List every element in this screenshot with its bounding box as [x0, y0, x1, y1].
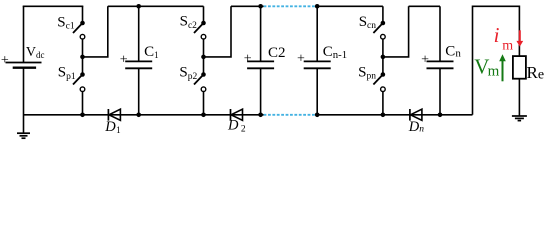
svg-text:Cn: Cn	[445, 44, 461, 60]
svg-text:m: m	[488, 64, 500, 80]
resistor Re	[513, 56, 526, 79]
svg-text:+: +	[1, 53, 9, 68]
svg-text:Scn: Scn	[359, 14, 377, 31]
svg-text:Sc2: Sc2	[180, 14, 198, 31]
svg-text:Vdc: Vdc	[26, 45, 45, 60]
svg-text:C1: C1	[144, 44, 159, 60]
node Scn pivot	[381, 21, 386, 26]
svg-text:Cn-1: Cn-1	[323, 44, 347, 61]
node Sp1 bottom junction	[80, 113, 85, 118]
capacitor C1	[125, 6, 152, 115]
switch Sp2	[194, 57, 206, 115]
svg-text:n: n	[419, 125, 424, 135]
capacitor C2	[247, 6, 274, 115]
voltage source Vdc	[6, 63, 42, 68]
node celln mid junction	[381, 55, 386, 60]
ground at battery	[17, 133, 30, 138]
svg-text:1: 1	[116, 125, 121, 135]
node Sp2 pivot	[201, 72, 206, 77]
capacitor Cn	[427, 6, 454, 115]
svg-text:m: m	[502, 39, 513, 54]
svg-text:+: +	[120, 53, 128, 68]
node Sc1 pivot	[80, 21, 85, 26]
svg-text:i: i	[494, 23, 500, 47]
wire top rail net4	[316, 5, 383, 7]
node C2 bottom junction	[258, 113, 263, 118]
switch Sp1	[73, 57, 85, 115]
node Sp1 pivot	[80, 72, 85, 77]
node C1 bottom junction	[136, 113, 141, 118]
wire cell2 mid link	[204, 6, 232, 57]
node C1 top junction	[136, 4, 141, 9]
node cell1 mid junction	[80, 55, 85, 60]
capacitor Cn-1	[304, 6, 331, 115]
switch Sc2	[194, 6, 206, 57]
node C2 top junction	[258, 4, 263, 9]
svg-text:Re: Re	[527, 63, 545, 83]
svg-text:2: 2	[241, 125, 246, 135]
diode Dn	[410, 109, 422, 121]
node Cn-1 top junction	[315, 4, 320, 9]
node Sc2 pivot	[201, 21, 206, 26]
wire dashed top continuation	[264, 5, 316, 7]
wire Re bottom vertical	[518, 79, 520, 116]
svg-text:D: D	[104, 119, 116, 135]
svg-text:Sc1: Sc1	[57, 14, 75, 31]
switch Scn	[373, 6, 385, 57]
svg-text:+: +	[421, 53, 429, 68]
wire cell1 mid link	[83, 6, 108, 57]
switch Spn	[373, 57, 385, 115]
svg-text:+: +	[297, 52, 305, 67]
current arrow im	[516, 30, 523, 46]
wire bottom net dash end to Re branch	[316, 114, 473, 116]
voltage arrow Vm	[499, 54, 506, 81]
svg-text:Sp2: Sp2	[179, 65, 197, 82]
node Spn bottom junction	[381, 113, 386, 118]
wire dashed bottom continuation	[264, 114, 316, 116]
wire celln mid link	[383, 6, 409, 57]
node Spn pivot	[381, 72, 386, 77]
wire top rail net1 battery to Sc1	[23, 5, 84, 7]
svg-text:Sp1: Sp1	[58, 65, 76, 82]
node cell2 mid junction	[201, 55, 206, 60]
svg-text:D: D	[227, 118, 239, 134]
diode D2	[231, 109, 243, 121]
wire top rail net2	[108, 5, 204, 7]
node Cn-1 bottom junction	[315, 113, 320, 118]
ground at Re	[512, 116, 527, 121]
svg-text:D: D	[408, 119, 420, 135]
wire bottom net battery to dash start	[24, 114, 264, 116]
svg-text:+: +	[244, 52, 252, 67]
node Sp2 bottom junction	[201, 113, 206, 118]
wire Re branch left vertical	[473, 6, 520, 115]
node Cn bottom junction	[438, 113, 443, 118]
wire battery top vertical	[23, 6, 25, 62]
wire top rail net3	[231, 5, 264, 7]
svg-text:C2: C2	[268, 45, 286, 61]
diode D1	[108, 109, 120, 121]
switch Sc1	[73, 6, 85, 57]
svg-text:Spn: Spn	[358, 65, 376, 82]
wire top rail net5	[409, 5, 440, 7]
wire battery bottom vertical	[23, 68, 25, 134]
